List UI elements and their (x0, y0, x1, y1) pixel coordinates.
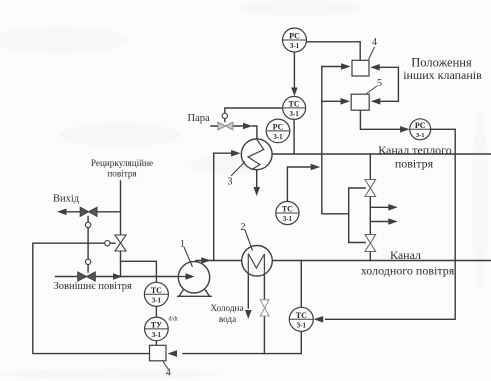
wire: TC E tap to cold duct (300, 261, 302, 308)
steam valve with actuator (218, 113, 233, 130)
svg-text:Зовнішнє повітря: Зовнішнє повітря (54, 281, 133, 292)
arrow: air into heater (231, 150, 241, 157)
wire: damper bracket linkage (349, 188, 366, 243)
svg-text:d/dt: d/dt (169, 317, 179, 323)
instrument TC 3-1 (E bottom) (289, 307, 313, 331)
svg-text:5: 5 (377, 78, 382, 89)
heater 3 (241, 139, 272, 170)
instrument TC 3-1 (H) (276, 201, 299, 224)
wire: arrow line into box 5 left (322, 100, 342, 102)
instrument PC 3-1 (C) (266, 119, 290, 143)
recirculation damper valve (115, 235, 126, 251)
svg-text:ТС: ТС (282, 205, 293, 214)
instrument TC 3-1 (F left) (144, 282, 168, 306)
wire: feedback loop from box 4 to dampers (33, 243, 150, 353)
label 1 (180, 239, 193, 267)
wire: box 5 bottom to PC D (360, 110, 401, 129)
wire: outside air intake line (56, 276, 179, 278)
box 5 (selector) (351, 78, 382, 110)
wire: PC A output to box 4 top (307, 42, 361, 61)
damper linkage circles (85, 222, 110, 264)
svg-text:ТС: ТС (151, 286, 162, 295)
intake valve (78, 272, 96, 281)
svg-text:3-1: 3-1 (152, 331, 162, 339)
wire: M cooler water drain (below circle) (247, 276, 249, 309)
instrument TC 3-1 (B) (283, 96, 306, 119)
arrow: cold water down (245, 310, 252, 319)
svg-text:вода: вода (219, 314, 236, 324)
arrow: outside air flow right (113, 273, 123, 280)
svg-text:4: 4 (372, 37, 377, 48)
wire: TC E output down to box 4 line (183, 331, 301, 353)
lower right damper valve (365, 235, 376, 252)
svg-text:РС: РС (289, 32, 300, 41)
svg-text:3-1: 3-1 (297, 321, 307, 329)
box 4 (top right selector) (352, 37, 377, 76)
svg-text:Холодна: Холодна (210, 303, 243, 313)
arrow: into box 5 left (341, 98, 351, 105)
wire: warm air duct line (272, 153, 491, 155)
arrow: into PC D (400, 126, 410, 133)
wire: other-valves feed bracket right (379, 67, 399, 101)
svg-text:холодного повітря: холодного повітря (361, 264, 455, 278)
label 2 (241, 222, 253, 251)
svg-text:інших клапанів: інших клапанів (403, 68, 482, 82)
label 3 (228, 162, 246, 188)
instrument TY 3-1 (G left) (145, 317, 169, 341)
cooler M (2) (242, 245, 273, 276)
svg-text:Канал: Канал (390, 248, 421, 262)
label: recirculation air (91, 158, 153, 179)
wire: control vertical to boxes 4,5 and damper bracket (322, 67, 349, 214)
upper right damper valve (365, 180, 376, 197)
wire: M cooler valve line down (below circle) (263, 275, 265, 354)
arrow: into TC H line junction (311, 164, 321, 171)
svg-text:Рециркуляційне: Рециркуляційне (91, 158, 153, 168)
fan inlet arrow (inside) (179, 273, 195, 279)
svg-text:3-1: 3-1 (416, 132, 425, 139)
arrow: steam flow right (243, 123, 253, 130)
wire: steam supply line (211, 126, 257, 139)
exhaust valve (80, 207, 97, 216)
instrument PC 3-1 (D right) (410, 119, 431, 140)
label: cold water (210, 303, 243, 324)
wire: vertical duct branch up to heater (214, 153, 232, 260)
svg-text:ТС: ТС (296, 311, 307, 320)
label: warm air channel (378, 143, 452, 171)
valve under M cooler (260, 300, 269, 316)
wire: TC F to TY G connector (155, 306, 157, 317)
svg-text:3-1: 3-1 (290, 42, 300, 50)
svg-text:повітря: повітря (395, 157, 434, 171)
wire: PC A down-arrow to TC B (293, 52, 295, 88)
wire: warm duct down through upper valve to arrows (369, 154, 371, 261)
svg-text:ТС: ТС (289, 99, 300, 108)
svg-text:ТУ: ТУ (151, 320, 162, 329)
svg-text:2: 2 (241, 222, 246, 233)
arrow: into box 4 left (341, 63, 351, 70)
svg-text:РС: РС (273, 122, 284, 131)
svg-text:Пара: Пара (188, 113, 210, 124)
arrow: supply to rooms 1 (388, 204, 398, 211)
wire: PC D output right and down to TC E (326, 129, 456, 319)
wire: TC H to control vertical (287, 167, 311, 202)
wire: supply arrows to rooms (370, 207, 389, 221)
wire: recirculation vertical line (120, 181, 122, 277)
wire: heater condensate out (256, 170, 258, 188)
svg-text:РС: РС (415, 121, 426, 130)
arrow: supply to rooms 2 (388, 218, 398, 225)
fan 1 (177, 262, 212, 297)
svg-text:3-1: 3-1 (283, 215, 293, 223)
arrow: into box 4 right (370, 64, 380, 71)
svg-text:3-1: 3-1 (152, 296, 162, 304)
wire: exhaust line (66, 211, 121, 213)
svg-text:1: 1 (180, 239, 185, 250)
svg-text:Вихід: Вихід (53, 193, 80, 204)
wire: steam valve actuator stem (224, 119, 226, 122)
label: cold air channel (361, 248, 455, 278)
arrow: exhaust flow left (57, 209, 67, 216)
wire: damper linkage vertical (87, 217, 89, 273)
box 4 (bottom left actuator) (150, 345, 171, 378)
wire: arrow line into box 4 left (322, 66, 343, 68)
svg-text:3-1: 3-1 (289, 110, 299, 118)
arrow: PC A to TC B (291, 88, 298, 97)
label: position of other valves (403, 55, 482, 82)
wire: TC B tap to warm duct (293, 120, 295, 155)
arrow: into TC E (314, 316, 324, 323)
wire: control line TC B to steam valve actuator (225, 108, 283, 113)
arrow: into box 4 bottom-left (168, 350, 178, 357)
arrow: condensate down (253, 187, 260, 196)
svg-text:повітря: повітря (107, 169, 137, 179)
svg-text:3: 3 (228, 177, 233, 188)
wire: cold air duct line (196, 260, 491, 262)
arrow: fan discharge (201, 257, 211, 264)
wire: TY G to box 4 connector (155, 341, 157, 346)
svg-text:4: 4 (166, 368, 171, 379)
instrument PC 3-1 (A top) (283, 28, 307, 52)
arrow: into box 5 right (371, 98, 381, 105)
svg-text:3-1: 3-1 (273, 133, 283, 141)
svg-text:Канал теплого: Канал теплого (378, 143, 452, 157)
wire: mixed air tap to TC sensor (121, 261, 157, 282)
